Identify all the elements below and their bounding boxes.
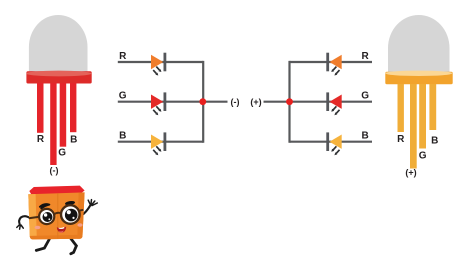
- mascot cube bottom shade: [30, 235, 83, 240]
- LED1 base flange band: [26, 71, 91, 83]
- mascot left eyebrow: [40, 204, 50, 209]
- LED symbol D4 red-channel (orange) right schematic: [326, 53, 341, 76]
- svg-text:R: R: [119, 51, 127, 62]
- svg-text:B: B: [70, 135, 77, 146]
- mascot cube left face shade: [28, 194, 37, 239]
- wire R row: [290, 61, 373, 63]
- svg-text:(-): (-): [50, 166, 59, 176]
- wire G row: [118, 101, 228, 103]
- mascot cube right shade: [77, 192, 84, 238]
- mascot right eyebrow: [65, 200, 76, 206]
- common-cathode schematic (left): [118, 61, 228, 143]
- mascot right lens: [61, 205, 80, 224]
- LED1 common-cathode RGB LED (left physical package): [26, 15, 92, 176]
- mascot left leg: [36, 239, 49, 250]
- svg-text:B: B: [361, 131, 368, 142]
- mascot right leg: [71, 239, 77, 254]
- LED1 pin R: [37, 83, 44, 133]
- mascot right arm: [82, 206, 91, 216]
- mascot left cheek: [35, 226, 41, 230]
- svg-text:(+): (+): [250, 97, 261, 107]
- svg-text:B: B: [119, 131, 126, 142]
- LED1 epoxy dome: [29, 15, 88, 72]
- svg-text:R: R: [361, 51, 369, 62]
- mascot left arm: [19, 216, 30, 224]
- mascot cube body: [28, 192, 84, 239]
- svg-text:G: G: [419, 151, 427, 162]
- wire vertical bus: [288, 61, 290, 143]
- mascot left lens: [39, 209, 54, 224]
- mascot cube character: [17, 186, 98, 254]
- mascot glasses bridge & temples: [54, 213, 62, 215]
- svg-text:G: G: [119, 91, 127, 102]
- LED2 pin G: [419, 84, 426, 149]
- wire B row: [290, 141, 373, 143]
- LED2 epoxy dome: [388, 15, 450, 73]
- LED2 common-anode RGB LED (right physical package): [385, 15, 453, 178]
- LED symbol D6 blue-channel (amber) right schematic: [326, 132, 341, 155]
- svg-text:R: R: [37, 134, 45, 145]
- svg-text:G: G: [361, 91, 369, 102]
- svg-text:G: G: [58, 148, 66, 159]
- svg-text:(+): (+): [405, 168, 416, 178]
- LED2 band top ellipse highlight: [385, 71, 452, 76]
- LED symbol D1 red-channel (orange) left schematic: [151, 53, 166, 76]
- wire vertical bus: [202, 61, 204, 143]
- mascot cube red top: [29, 186, 84, 195]
- common-anode schematic (right): [264, 61, 373, 143]
- LED1 pin common cathode: [50, 83, 56, 165]
- svg-text:(-): (-): [231, 97, 240, 107]
- svg-text:B: B: [431, 136, 438, 147]
- mascot right cheek: [77, 223, 82, 227]
- wire R row: [118, 61, 203, 63]
- mascot mouth: [57, 227, 66, 233]
- LED1 pin G: [60, 83, 66, 147]
- LED symbol D3 blue-channel (amber) left schematic: [151, 132, 166, 155]
- LED2 pin B: [429, 84, 436, 130]
- mascot center seam: [57, 193, 59, 239]
- wire B row: [118, 141, 203, 143]
- node common anode junction: [286, 98, 293, 105]
- wire G row: [290, 101, 373, 103]
- LED2 pin common anode: [410, 84, 417, 169]
- LED2 base flange band: [385, 72, 452, 84]
- wire from (+) to node: [264, 101, 290, 103]
- LED symbol D5 green-channel (red) right schematic: [326, 92, 341, 115]
- LED1 band top ellipse highlight: [26, 71, 91, 77]
- svg-text:R: R: [397, 134, 405, 145]
- LED symbol D2 green-channel (red) left schematic: [151, 92, 166, 115]
- LED1 pin B: [70, 83, 76, 132]
- LED2 pin R: [398, 84, 404, 132]
- node common cathode junction: [199, 98, 206, 105]
